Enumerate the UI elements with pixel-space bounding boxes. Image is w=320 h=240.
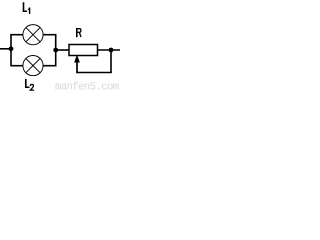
wire: bottom return to wiper xyxy=(77,72,112,74)
wire: L1 right lead to right rail xyxy=(43,34,56,36)
lamp L1 xyxy=(23,25,43,45)
wire: resistor R right terminal to right edge xyxy=(98,49,121,51)
resistor R (rheostat body) xyxy=(69,45,98,56)
rheostat wiper arrow stem xyxy=(76,60,78,73)
wire: right rail to L2 right lead xyxy=(43,65,56,67)
wire: external stub left xyxy=(0,48,11,50)
label L2 xyxy=(25,79,34,90)
rheostat wiper arrowhead xyxy=(74,55,80,63)
junction: left node dot xyxy=(9,46,14,51)
wire: output node down xyxy=(110,50,112,73)
wire: right node to resistor R left terminal xyxy=(56,49,69,51)
wire: right rail vertical xyxy=(55,34,57,67)
lamp L2 xyxy=(23,56,43,76)
wire: left rail vertical xyxy=(10,34,12,67)
junction: output node dot xyxy=(109,48,114,53)
svg-text:manfen5.com: manfen5.com xyxy=(55,82,119,93)
label R xyxy=(76,28,81,37)
label L1 xyxy=(23,2,31,14)
wire: left rail to L2 left lead xyxy=(11,65,23,67)
wire: L1 left lead to left rail xyxy=(11,34,23,36)
junction: right node dot xyxy=(53,48,58,53)
